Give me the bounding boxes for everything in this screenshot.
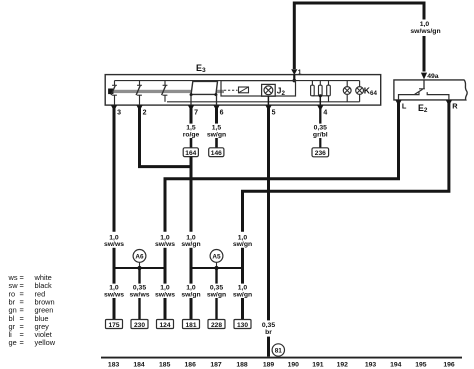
svg-text:183: 183 xyxy=(108,362,120,369)
svg-text:7: 7 xyxy=(194,109,198,116)
svg-text:190: 190 xyxy=(288,362,300,369)
node A6 dot xyxy=(137,266,141,270)
wire label 0,35 gr/bl xyxy=(313,125,328,139)
track number 187 xyxy=(210,362,222,369)
svg-text:A6: A6 xyxy=(135,253,144,260)
svg-text:E3: E3 xyxy=(196,63,206,74)
linkage dashes xyxy=(224,89,238,91)
svg-text:1,0: 1,0 xyxy=(420,21,430,28)
track number 194 xyxy=(390,362,402,369)
wire label 1,5 ro/ge xyxy=(183,125,200,139)
svg-text:L: L xyxy=(402,102,407,111)
svg-text:193: 193 xyxy=(365,362,377,369)
svg-text:sw/gn: sw/gn xyxy=(207,291,226,298)
svg-text:sw/gn: sw/gn xyxy=(181,291,200,298)
svg-text:sw/ws: sw/ws xyxy=(129,291,149,298)
svg-text:A5: A5 xyxy=(212,253,221,260)
svg-text:164: 164 xyxy=(185,150,196,157)
wire label 1,0 sw/ws xyxy=(104,234,124,248)
svg-text:sw/gn: sw/gn xyxy=(233,291,252,298)
switch E3 box xyxy=(105,75,381,106)
wire label 1,0 sw/ws xyxy=(155,234,175,248)
switch E2 box xyxy=(394,80,467,100)
label E2 xyxy=(418,103,428,114)
pin L xyxy=(395,100,407,111)
wire xyxy=(267,108,270,321)
wire xyxy=(138,298,140,320)
wire xyxy=(164,268,167,284)
wire xyxy=(215,268,217,284)
track number 192 xyxy=(337,362,349,369)
connector 124 xyxy=(157,320,174,329)
wire xyxy=(319,96,321,105)
track number 195 xyxy=(415,362,427,369)
wire label 0,35 sw/gn xyxy=(207,285,226,299)
svg-text:sw/ws/gn: sw/ws/gn xyxy=(410,28,440,35)
actuator xyxy=(108,89,113,95)
wire label 1,0 sw/ws xyxy=(104,285,124,299)
pin R xyxy=(446,100,458,111)
svg-text:R: R xyxy=(452,102,458,111)
track number 196 xyxy=(443,362,455,369)
wire label 1,0 sw/gn xyxy=(181,234,200,248)
resistor R3 xyxy=(327,81,331,96)
relay coil xyxy=(239,87,249,93)
track number 184 xyxy=(133,362,145,369)
pin 1 xyxy=(291,69,301,76)
wire xyxy=(140,108,192,167)
pin 5 xyxy=(265,105,275,116)
wire xyxy=(165,102,399,232)
track number 188 xyxy=(236,362,248,369)
relay J2 box xyxy=(221,81,296,96)
svg-text:1: 1 xyxy=(298,70,302,77)
connector 130 xyxy=(234,320,251,329)
wire xyxy=(113,298,116,320)
junction A6 xyxy=(133,250,146,267)
wire xyxy=(164,298,167,320)
wire xyxy=(241,248,244,268)
wire label 1,0 sw/gn xyxy=(233,285,252,299)
switch contact at x165 xyxy=(162,81,168,102)
wire xyxy=(190,108,193,124)
wire label 0,35 sw/ws xyxy=(129,285,149,299)
node resistor junction xyxy=(319,94,322,97)
pin 3 xyxy=(111,105,121,116)
svg-text:sw/ws: sw/ws xyxy=(155,241,175,248)
pin 7 xyxy=(188,105,198,116)
svg-text:gr/bl: gr/bl xyxy=(313,131,328,138)
svg-text:J2: J2 xyxy=(277,86,286,97)
svg-text:195: 195 xyxy=(415,362,427,369)
resistor R2 xyxy=(319,81,323,96)
connector 236 xyxy=(312,148,329,157)
wire label 0,35 br xyxy=(262,322,275,336)
wire xyxy=(319,108,321,124)
wire label 1,0 sw/gn xyxy=(233,234,252,248)
label E3 xyxy=(196,63,206,74)
mechanical linkage xyxy=(111,90,225,93)
switch contact at x114.5 xyxy=(111,81,117,105)
node bridge left xyxy=(190,93,193,105)
E2 left rail xyxy=(399,92,420,100)
svg-text:6: 6 xyxy=(220,109,224,116)
resistor bottom bus xyxy=(312,95,328,97)
node pin1 junction xyxy=(293,79,297,83)
svg-text:sw/ws: sw/ws xyxy=(104,241,124,248)
wire xyxy=(113,248,116,268)
wire xyxy=(190,157,193,232)
svg-text:185: 185 xyxy=(159,362,171,369)
svg-text:ge=yellow: ge=yellow xyxy=(9,338,56,347)
svg-text:br: br xyxy=(265,329,272,336)
svg-text:0,35: 0,35 xyxy=(262,322,275,329)
resistor R1 xyxy=(311,81,315,96)
wire label 1,0 sw/ws/gn xyxy=(410,21,440,35)
wire xyxy=(243,102,449,232)
wire xyxy=(190,138,193,148)
svg-text:228: 228 xyxy=(211,322,222,329)
svg-text:146: 146 xyxy=(211,150,222,157)
wire xyxy=(190,268,193,284)
svg-text:81: 81 xyxy=(275,348,283,355)
indicator lamp in J2 xyxy=(264,86,273,95)
internal bus xyxy=(115,80,360,82)
svg-text:196: 196 xyxy=(443,362,455,369)
svg-text:sw/gn: sw/gn xyxy=(207,131,226,138)
node bridge right xyxy=(214,93,217,105)
wire xyxy=(241,268,244,284)
wire xyxy=(113,108,116,232)
switch contact at x139.5 xyxy=(136,81,142,105)
wire xyxy=(267,96,269,105)
wire xyxy=(267,337,270,357)
svg-text:236: 236 xyxy=(315,150,326,157)
connector 230 xyxy=(131,320,148,329)
svg-text:ro/ge: ro/ge xyxy=(183,131,200,138)
svg-text:181: 181 xyxy=(185,322,196,329)
wire xyxy=(423,36,426,72)
connector 228 xyxy=(208,320,225,329)
wire label 1,5 sw/gn xyxy=(207,125,226,139)
wire xyxy=(138,268,140,284)
E2 contact bar xyxy=(419,88,425,90)
track baseline xyxy=(101,357,462,359)
junction A5 xyxy=(210,250,223,267)
wire label 1,0 sw/gn xyxy=(181,285,200,299)
svg-text:191: 191 xyxy=(312,362,324,369)
wire xyxy=(215,138,218,148)
label K64 xyxy=(364,86,378,97)
connector 146 xyxy=(209,148,224,157)
track number 193 xyxy=(365,362,377,369)
wire xyxy=(215,108,218,124)
track number 186 xyxy=(185,362,197,369)
svg-text:175: 175 xyxy=(108,322,119,329)
connector 181 xyxy=(183,320,200,329)
svg-text:194: 194 xyxy=(390,362,402,369)
svg-text:184: 184 xyxy=(133,362,145,369)
svg-text:230: 230 xyxy=(134,322,145,329)
lamp K64 left xyxy=(343,81,351,102)
node A5 dot xyxy=(214,266,218,270)
wire xyxy=(294,3,424,69)
pin 6 xyxy=(213,105,223,116)
wire xyxy=(241,298,244,320)
wire xyxy=(190,298,193,320)
E2 right rail xyxy=(427,92,449,100)
svg-text:5: 5 xyxy=(272,109,276,116)
pin 2 xyxy=(136,105,146,116)
svg-text:3: 3 xyxy=(117,109,121,116)
svg-text:2: 2 xyxy=(143,109,147,116)
pin 49a xyxy=(421,73,439,81)
track number 185 xyxy=(159,362,171,369)
svg-text:49a: 49a xyxy=(427,73,439,80)
svg-text:188: 188 xyxy=(236,362,248,369)
bus left xyxy=(114,267,165,269)
internal link wire xyxy=(167,101,360,103)
lamp housing xyxy=(262,84,276,96)
track number 191 xyxy=(312,362,324,369)
svg-text:sw/ws: sw/ws xyxy=(104,291,124,298)
wire xyxy=(190,248,193,268)
track number 190 xyxy=(288,362,300,369)
svg-text:186: 186 xyxy=(185,362,197,369)
connector 164 xyxy=(183,148,198,157)
lamp K64 right xyxy=(356,81,364,102)
svg-text:4: 4 xyxy=(323,109,327,116)
wire xyxy=(423,80,425,89)
bus right xyxy=(191,267,243,269)
wire label 1,0 sw/ws xyxy=(155,285,175,299)
wire xyxy=(293,75,295,81)
wire xyxy=(113,268,116,284)
E2 blade xyxy=(415,89,423,94)
wire xyxy=(328,96,330,102)
svg-text:192: 192 xyxy=(337,362,349,369)
wire xyxy=(215,298,217,320)
wire xyxy=(164,248,167,268)
pin 4 xyxy=(317,105,327,116)
svg-text:124: 124 xyxy=(159,322,170,329)
track number 183 xyxy=(108,362,120,369)
svg-text:K64: K64 xyxy=(364,86,378,97)
colour legend xyxy=(8,273,56,347)
ground connection 81 xyxy=(272,344,284,356)
svg-text:sw/gn: sw/gn xyxy=(181,241,200,248)
svg-text:E2: E2 xyxy=(418,103,428,114)
svg-text:189: 189 xyxy=(263,362,275,369)
connector 175 xyxy=(106,320,123,329)
label J2 xyxy=(277,86,286,97)
hazard switch bridge xyxy=(191,81,217,94)
track number 189 xyxy=(263,362,275,369)
svg-text:sw/ws: sw/ws xyxy=(155,291,175,298)
wire xyxy=(319,138,321,148)
svg-text:187: 187 xyxy=(210,362,222,369)
svg-text:sw/gn: sw/gn xyxy=(233,241,252,248)
svg-text:130: 130 xyxy=(237,322,248,329)
